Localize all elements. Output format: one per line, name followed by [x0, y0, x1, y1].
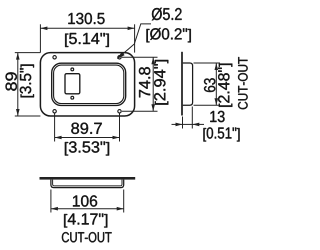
- side view: dish profile: [183, 63, 193, 105]
- dim 106: arrow left: [51, 207, 58, 211]
- front view: connector cutout rectangle: [65, 74, 80, 94]
- dim 13: arrow left (outside): [176, 123, 183, 127]
- dim 13: extension line right: [191, 107, 193, 129]
- front view: plate outline: [40, 53, 134, 116]
- label [3.5"] (rotated): [20, 64, 34, 97]
- dim 106: extension line right: [123, 190, 125, 213]
- label 130.5: [68, 13, 104, 24]
- dim 106: arrow right: [117, 207, 124, 211]
- dim 130.5: extension line right: [134, 24, 136, 52]
- front view: connector screw hole bottom: [71, 96, 74, 99]
- dim 89.7: extension line right from screw hole: [119, 114, 121, 142]
- bottom view: pan outer outline: [51, 180, 124, 188]
- label [diameter 0.2"]: [146, 28, 190, 42]
- front view: dish recess inner edge: [54, 65, 124, 104]
- leader line for hole diameter callout: [118, 24, 152, 59]
- label CUT-OUT side (rotated): [238, 57, 248, 109]
- label 89.7: [71, 123, 101, 134]
- dim 89 left: arrow top: [16, 53, 20, 60]
- dim 63: arrow bottom: [215, 98, 219, 105]
- dim 89.7: arrow left: [55, 136, 62, 140]
- label diameter 5.2: [152, 8, 182, 21]
- dim 89.7: extension line left from screw hole: [54, 114, 56, 142]
- dim 74.8: arrow top: [151, 57, 155, 64]
- dim 130.5: arrow right: [128, 27, 135, 31]
- front view: dish recess outer edge: [52, 63, 126, 105]
- side view: plate edge line: [181, 52, 183, 116]
- bottom view: pan inner wall line: [53, 180, 122, 186]
- dim 74.8: arrow bottom: [151, 104, 155, 111]
- dim 130.5: arrow left: [40, 27, 47, 31]
- dim 74.8: extension line top from screw hole: [122, 56, 158, 58]
- label 89 (rotated): [6, 72, 17, 90]
- label 63 (rotated): [204, 78, 215, 92]
- dim 63: extension line bottom: [194, 104, 221, 106]
- dim 89 left: dimension line: [17, 53, 19, 116]
- dim 106: extension line left: [50, 190, 52, 213]
- dim 13: outside tail left: [172, 123, 183, 125]
- label [4.17"]: [64, 213, 107, 227]
- front view: plate screw hole bottom-right: [118, 110, 121, 113]
- bottom view: plate bar: [40, 177, 136, 180]
- dim 106: dimension line: [51, 208, 124, 210]
- label CUT-OUT bottom: [62, 232, 112, 242]
- dim 130.5: extension line left: [39, 24, 41, 52]
- dim 13: arrow right (outside): [192, 123, 199, 127]
- label [5.14"]: [65, 33, 109, 47]
- front view: connector screw hole top: [71, 68, 74, 71]
- label 13: [210, 111, 224, 122]
- dim 74.8: extension line bottom from screw hole: [122, 110, 158, 112]
- dim 89 left: extension line top: [15, 52, 41, 54]
- label 106: [73, 195, 97, 206]
- dim 63: extension line top: [194, 62, 221, 64]
- dim 89.7: arrow right: [113, 136, 120, 140]
- label 74.8 (rotated): [139, 67, 150, 97]
- label [2.48"] (rotated): [218, 64, 232, 107]
- dim 13: extension line left: [182, 117, 184, 129]
- dim 89 left: arrow bottom: [16, 109, 20, 116]
- dim 130.5: dimension line: [40, 27, 134, 29]
- front view: plate screw hole bottom-left: [53, 110, 56, 113]
- dim 89.7: dimension line: [55, 137, 120, 139]
- dim 89 left: extension line bottom: [15, 115, 41, 117]
- front view: plate screw hole top-left: [53, 56, 56, 59]
- dim 74.8: dimension line: [152, 57, 154, 111]
- dim 63: dimension line: [215, 63, 217, 105]
- dim 13: dimension line between extensions: [183, 123, 193, 125]
- label [3.53"]: [65, 141, 109, 155]
- leader arrowhead at screw hole: [115, 52, 124, 61]
- dim 13: outside tail right: [192, 123, 204, 125]
- dim 63: arrow top: [215, 63, 219, 70]
- label [2.94"] (rotated): [154, 60, 168, 105]
- label [0.51"]: [203, 127, 239, 141]
- front view: plate screw hole top-right: [118, 56, 121, 59]
